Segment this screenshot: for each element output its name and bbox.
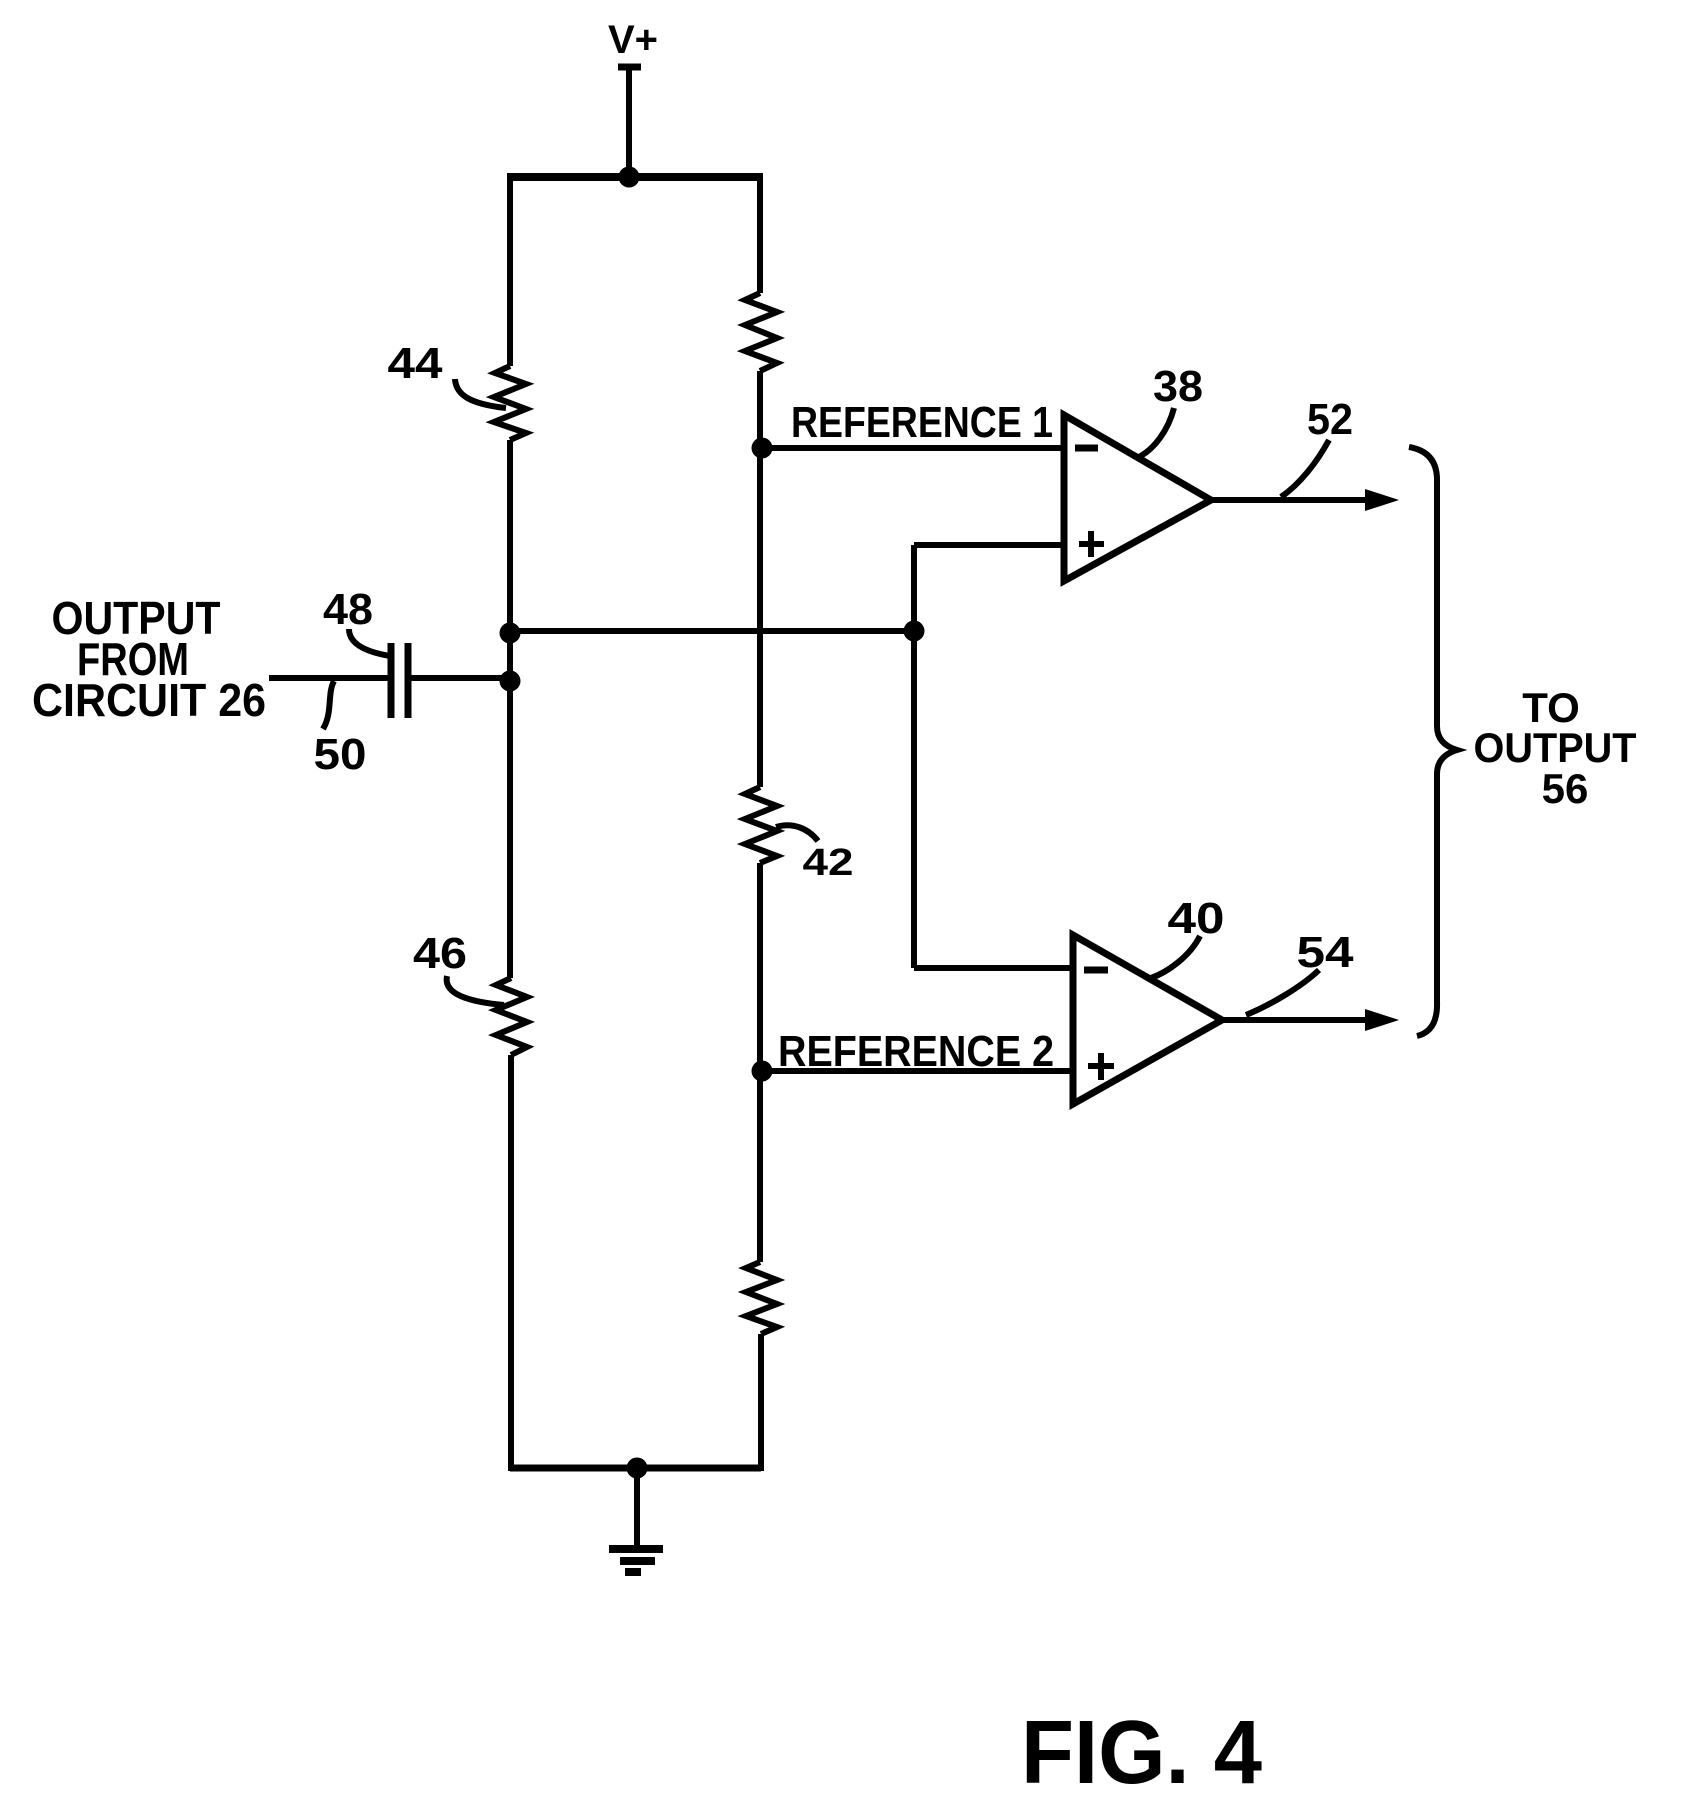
svg-text:40: 40 xyxy=(1168,894,1225,943)
svg-text:48: 48 xyxy=(323,585,373,634)
svg-text:44: 44 xyxy=(388,339,444,388)
svg-text:FIG. 4: FIG. 4 xyxy=(1021,1703,1262,1803)
svg-text:42: 42 xyxy=(803,842,854,884)
svg-text:OUTPUT: OUTPUT xyxy=(1474,724,1637,771)
svg-text:V+: V+ xyxy=(608,18,658,62)
svg-text:54: 54 xyxy=(1297,928,1355,977)
svg-text:CIRCUIT 26: CIRCUIT 26 xyxy=(32,674,266,726)
svg-text:46: 46 xyxy=(413,929,467,978)
svg-text:56: 56 xyxy=(1542,765,1589,812)
svg-text:50: 50 xyxy=(314,730,367,779)
svg-text:REFERENCE 2: REFERENCE 2 xyxy=(778,1027,1054,1076)
svg-text:REFERENCE 1: REFERENCE 1 xyxy=(791,398,1053,447)
svg-text:52: 52 xyxy=(1307,395,1353,444)
svg-text:38: 38 xyxy=(1153,362,1203,411)
